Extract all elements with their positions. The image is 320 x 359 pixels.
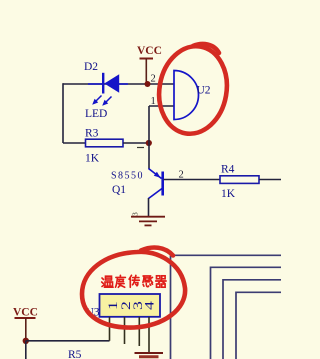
svg-text:4: 4 bbox=[143, 301, 157, 310]
svg-text:LED: LED bbox=[85, 108, 107, 120]
svg-text:1K: 1K bbox=[221, 188, 236, 200]
svg-text:R3: R3 bbox=[85, 128, 99, 140]
svg-text:VCC: VCC bbox=[13, 307, 38, 319]
svg-text:U2: U2 bbox=[197, 85, 211, 97]
svg-text:3: 3 bbox=[131, 212, 140, 216]
svg-text:D2: D2 bbox=[84, 61, 98, 73]
svg-text:VCC: VCC bbox=[137, 45, 162, 57]
svg-text:1K: 1K bbox=[85, 153, 100, 165]
svg-text:S8550: S8550 bbox=[111, 171, 144, 182]
svg-text:Q1: Q1 bbox=[112, 184, 126, 196]
svg-text:R4: R4 bbox=[221, 164, 235, 176]
svg-text:2: 2 bbox=[179, 170, 184, 181]
svg-text:R5: R5 bbox=[68, 349, 82, 359]
svg-text:2: 2 bbox=[151, 74, 156, 85]
